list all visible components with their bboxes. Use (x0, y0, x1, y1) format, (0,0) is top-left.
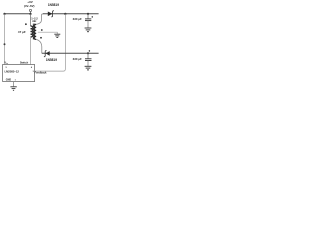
plus sign C2 (92, 16, 94, 18)
wire secondary top hook to +12V rail (36, 14, 43, 25)
transformer T1 core (32, 24, 34, 40)
capacitor C3 330uF bottom (87, 52, 89, 54)
wire secondary bottom hook (36, 39, 42, 53)
wire feedback (35, 14, 66, 71)
wire -12V rail C (42, 52, 99, 54)
transformer T1 primary winding (31, 26, 33, 37)
node junction dot left rail (3, 13, 5, 15)
terminal +3V input (29, 9, 31, 11)
capacitor C2 330uF top (87, 13, 89, 15)
wire secondary center tap to ground (38, 32, 58, 34)
svg-text:mH: mH (32, 19, 36, 23)
transformer T1 secondary winding (34, 24, 37, 39)
svg-text:1: 1 (15, 79, 16, 81)
svg-text:LM2585–12: LM2585–12 (5, 70, 20, 74)
node junction dot input (29, 13, 31, 15)
node feedback tap dot (64, 13, 66, 15)
svg-text:1N5819: 1N5819 (46, 58, 57, 62)
svg-text:5: 5 (6, 67, 7, 69)
transformer T1 secondary phase dot lower (40, 37, 42, 39)
svg-text:330 µF: 330 µF (73, 57, 82, 61)
diode D2 1N5819 bottom (44, 51, 47, 57)
ground center tap (54, 33, 60, 35)
wire primary top lead (30, 14, 32, 26)
svg-text:GND: GND (6, 78, 12, 81)
transformer T1 primary phase dot (25, 23, 27, 25)
ground under C3 (85, 65, 92, 67)
IC U1 LM2585-12 box (3, 65, 35, 82)
ground under C2 (85, 27, 92, 29)
wire primary bottom lead to Switch (30, 37, 32, 65)
node dot on Vin wire (4, 43, 6, 45)
wire input rail A (5, 13, 31, 15)
ground IC (10, 86, 16, 88)
wire +12V rail B (43, 13, 99, 15)
svg-text:330 µF: 330 µF (73, 17, 82, 21)
svg-text:Feedback: Feedback (35, 70, 48, 74)
svg-text:in: in (6, 63, 8, 65)
plus sign C3 (89, 50, 91, 52)
diode D1 1N5819 top (48, 12, 53, 17)
wire GND pin (13, 82, 15, 87)
svg-text:1N5819: 1N5819 (48, 3, 59, 7)
transformer T1 secondary phase dot upper (41, 29, 43, 31)
wire Vin drop (4, 14, 6, 65)
svg-text:Switch: Switch (20, 61, 29, 65)
svg-text:47 µF: 47 µF (18, 30, 26, 34)
svg-text:(4V–6V): (4V–6V) (24, 4, 35, 8)
